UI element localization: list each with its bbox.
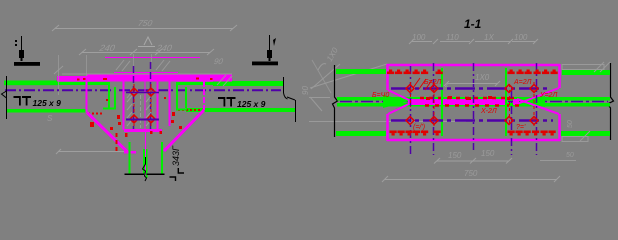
stiffener centerline right (violet dashed vertical) bbox=[150, 62, 152, 129]
thin magenta line above joint (upper) bbox=[105, 57, 200, 59]
svg-text:1Х: 1Х bbox=[484, 33, 494, 42]
svg-text:750: 750 bbox=[464, 169, 478, 178]
stub center magenta line bbox=[145, 131, 147, 174]
break line left (black) bbox=[2, 76, 7, 119]
haunch right slope (magenta) bbox=[164, 110, 204, 151]
red dashed vertical left of stub bbox=[116, 133, 118, 153]
stub column flange mid (green double) bbox=[143, 149, 145, 174]
right beam end plate (magenta vertical dashed) bbox=[203, 81, 205, 110]
top dim row: four chained dims bbox=[409, 39, 538, 44]
dimension line total (top) bbox=[52, 25, 237, 31]
splice plate outline (magenta) bbox=[387, 64, 560, 141]
support bar left bbox=[14, 62, 40, 66]
top row bolts (red stud marks) bbox=[387, 70, 558, 75]
left web end green wedge bbox=[383, 95, 410, 108]
svg-text:1Х0: 1Х0 bbox=[475, 73, 490, 82]
joint vertical magenta line mid bbox=[144, 81, 146, 130]
break line right bottom (black) bbox=[287, 97, 296, 122]
svg-text:90: 90 bbox=[301, 86, 310, 95]
support bar right bbox=[252, 62, 278, 66]
bottom flange left (green) bbox=[7, 109, 86, 113]
web centerline (violet dash-dot) bbox=[340, 101, 608, 103]
svg-text:343Г: 343Г bbox=[171, 145, 181, 166]
svg-text:125 x 9: 125 x 9 bbox=[33, 98, 62, 108]
bolt axis red dashes bbox=[134, 84, 151, 126]
web center dashed gray bbox=[140, 95, 142, 128]
top flange left (green) bbox=[4, 81, 59, 86]
red marks at stub top bbox=[125, 131, 162, 137]
gray leader line to stub bbox=[56, 149, 126, 154]
bottom bolt gauge line (violet) bbox=[391, 119, 553, 122]
joint vertical magenta line 1 bbox=[123, 81, 125, 130]
red weld dots on bottom flange left of joint bbox=[88, 113, 104, 115]
joint bottom magenta bar bbox=[124, 129, 162, 132]
svg-text:У=2Л: У=2Л bbox=[539, 92, 557, 99]
svg-text:z: z bbox=[444, 82, 449, 89]
stub base line right (black) bbox=[147, 174, 165, 176]
right break line (black) bbox=[608, 63, 614, 140]
top flange left bar (green) bbox=[336, 69, 386, 74]
svg-text:125 x 9: 125 x 9 bbox=[237, 99, 266, 109]
plate taper bottom-left (magenta) bbox=[388, 103, 411, 114]
left break line (black) bbox=[333, 65, 338, 137]
weld symbol below right (black) bbox=[170, 168, 185, 181]
top splice plate (magenta band) bbox=[57, 76, 232, 82]
svg-text:240: 240 bbox=[98, 43, 116, 53]
red weld marks along web splice (lower) bbox=[425, 104, 520, 107]
bolt column lines (violet dashed verticals) bbox=[411, 63, 537, 155]
red bolt column dashes bbox=[411, 82, 535, 126]
web plate left box (green) bbox=[103, 84, 116, 109]
bottom flange right bar (green) bbox=[561, 131, 610, 136]
svg-text:240: 240 bbox=[155, 43, 173, 53]
svg-text:S: S bbox=[47, 114, 53, 123]
gray hollow flange outline top right bbox=[562, 62, 610, 72]
svg-text:50: 50 bbox=[566, 152, 574, 159]
extension line a (gray) bbox=[58, 55, 60, 95]
bolts on gauge lines (red diamonds) bbox=[406, 85, 538, 125]
hatch column right (gray) bbox=[146, 96, 151, 126]
dimension line second row bbox=[79, 49, 214, 55]
web band double green bars bbox=[337, 97, 610, 101]
haunch toe magenta piece bbox=[124, 151, 136, 154]
hatch column left (gray) bbox=[127, 93, 132, 126]
svg-text:Б=Ч0: Б=Ч0 bbox=[372, 92, 389, 99]
bottom flange left bar (green) bbox=[336, 131, 386, 136]
red weld dots on top plate bbox=[77, 78, 213, 81]
load arrow right bbox=[267, 35, 276, 61]
gray X cross left bbox=[312, 60, 331, 93]
top flange right (green) bbox=[176, 82, 215, 85]
svg-text:150: 150 bbox=[448, 151, 462, 160]
break line right top (black) bbox=[284, 77, 288, 99]
red annotation texts bbox=[372, 79, 557, 131]
red marks right of joint bbox=[164, 97, 182, 129]
mid gray dim inside plate bbox=[444, 81, 500, 86]
top bolt gauge line (violet) bbox=[391, 87, 548, 90]
left beam end plate (magenta vertical) bbox=[86, 76, 88, 113]
stub column flange right (green) bbox=[161, 142, 163, 174]
web plate right box (green) bbox=[176, 84, 187, 110]
bottom row bolts (red stud marks) bbox=[390, 131, 556, 136]
lower bolt row violet line bbox=[126, 119, 159, 121]
gray hollow flange outline bottom right bbox=[562, 131, 590, 142]
section leader X left (gray) bbox=[309, 64, 387, 111]
small gray dim under right flange bbox=[540, 160, 576, 162]
stiffener centerline left (violet dashed vertical) bbox=[133, 66, 135, 129]
plate taper bottom-right (magenta) bbox=[517, 88, 559, 104]
load arrow left bbox=[15, 36, 24, 61]
svg-text:100: 100 bbox=[412, 33, 426, 42]
svg-text:?=': ?=' bbox=[516, 124, 526, 131]
beam end verticals in plan (green) bbox=[441, 68, 443, 136]
svg-text:1-1: 1-1 bbox=[464, 17, 482, 31]
red weld hatch top-left of plate bbox=[413, 78, 432, 90]
extension line d (gray) bbox=[151, 54, 153, 62]
stub center break zigzag (black) bbox=[143, 157, 147, 181]
svg-text:50: 50 bbox=[567, 120, 574, 128]
stub base line left (black) bbox=[125, 174, 145, 176]
plate taper top-left (magenta) bbox=[388, 90, 411, 101]
upper bolt row violet line bbox=[126, 92, 159, 94]
red weld marks along web splice (upper) bbox=[420, 97, 515, 100]
stub column flange left (green) bbox=[129, 142, 131, 174]
plate top gray line bbox=[62, 73, 232, 75]
bottom flange right (green) bbox=[186, 108, 295, 112]
beam centerline (violet dash-dot) bbox=[5, 89, 281, 91]
svg-text:(=/'): (=/') bbox=[413, 124, 425, 131]
svg-text:150: 150 bbox=[481, 149, 495, 158]
haunch left slope (magenta) bbox=[87, 113, 128, 153]
joint vertical magenta line 3 bbox=[169, 81, 171, 126]
svg-text:Б=2Л: Б=2Л bbox=[424, 79, 442, 86]
svg-text:Х-2Л: Х-2Л bbox=[480, 108, 497, 115]
right web end green wedge bbox=[518, 96, 545, 107]
dim row under plate: 150 150 bbox=[434, 158, 512, 164]
plate taper top-right (magenta) bbox=[517, 99, 559, 114]
bottom overall dim 750 bbox=[382, 176, 560, 182]
red weld cross marks on splice band bbox=[426, 96, 510, 100]
top flange right bar (green) bbox=[562, 70, 610, 75]
svg-text:А=2Л: А=2Л bbox=[513, 79, 532, 86]
beam label right: angles 125x9 (black) bbox=[218, 97, 236, 107]
extension line b (gray) bbox=[86, 55, 88, 76]
svg-text:110: 110 bbox=[446, 33, 459, 42]
red weld dots on bottom flange right of joint bbox=[178, 109, 205, 111]
svg-text:750: 750 bbox=[137, 18, 153, 28]
web splice magenta band bbox=[408, 99, 506, 105]
overlay hatch right of joint bbox=[217, 75, 232, 86]
beam label left: angles 125x9 (black) bbox=[14, 96, 32, 106]
extension line c (gray) bbox=[133, 54, 135, 66]
joint vertical magenta line 2 bbox=[157, 81, 159, 130]
thin magenta line above flange bbox=[114, 72, 178, 74]
gray hatch above joint bbox=[54, 60, 232, 84]
bolt upper left (red diamond) bbox=[130, 88, 155, 123]
long gray leader mid bbox=[309, 121, 466, 123]
red marks left of joint bbox=[90, 99, 121, 130]
delta symbol over joint bbox=[138, 37, 155, 47]
svg-text:100: 100 bbox=[514, 33, 528, 42]
